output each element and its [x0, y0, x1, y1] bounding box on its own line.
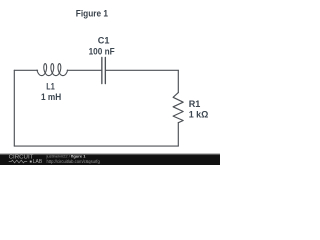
svg-text:C1: C1 [98, 36, 110, 47]
svg-text:1 kΩ: 1 kΩ [189, 109, 209, 120]
wire: top-left segment [14, 69, 37, 71]
svg-text:LAB: LAB [33, 159, 43, 165]
wire: left side [13, 70, 15, 146]
svg-text:Figure 1: Figure 1 [76, 8, 109, 19]
inductor L1 coil [37, 64, 68, 76]
wire: coil to capacitor [67, 69, 101, 71]
svg-text:1 mH: 1 mH [41, 92, 61, 103]
footer bar [0, 153, 220, 165]
wire: bottom [14, 145, 178, 147]
logo resistor zigzag [9, 160, 28, 163]
svg-text:justinelvir22 / figure 1: justinelvir22 / figure 1 [46, 154, 87, 159]
wire: resistor to bottom-right corner [177, 123, 179, 146]
wire: capacitor to top-right corner [106, 69, 179, 71]
resistor R1 zigzag [173, 93, 183, 123]
svg-text:100 nF: 100 nF [89, 46, 115, 57]
svg-text:L1: L1 [46, 81, 55, 92]
wire: right side down to resistor [177, 70, 179, 92]
svg-text:http://circuitlab.com/c6qsurfg: http://circuitlab.com/c6qsurfg [47, 159, 101, 164]
capacitor C1 plates [102, 57, 106, 83]
logo square mark [30, 161, 32, 163]
